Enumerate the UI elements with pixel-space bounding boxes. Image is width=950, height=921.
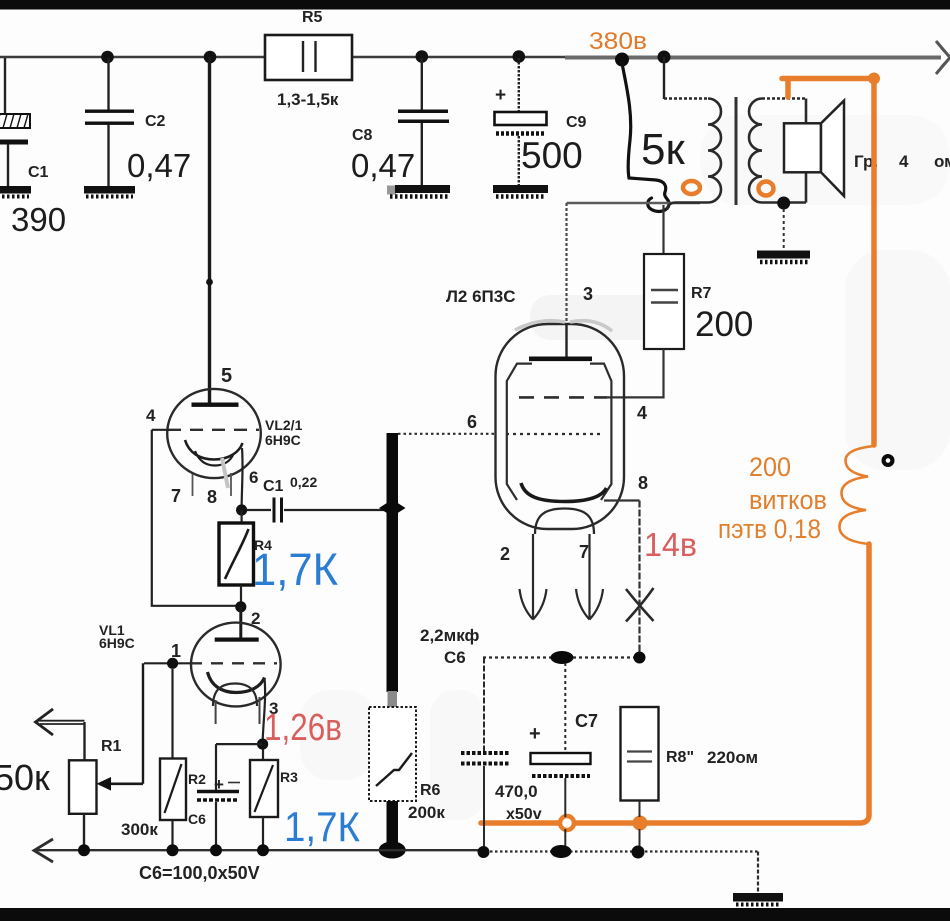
- orange winding coil: [839, 446, 874, 544]
- heater pin 7 arrow: [576, 534, 603, 620]
- node C1/R4 junction: [236, 504, 247, 515]
- svg-text:C1: C1: [263, 478, 284, 495]
- orange added-winding wire top run: [782, 79, 874, 446]
- svg-text:8: 8: [207, 487, 217, 507]
- svg-text:1: 1: [171, 641, 181, 661]
- ground below C2: [84, 186, 135, 197]
- node VL1 plate junction: [235, 601, 246, 612]
- wire ground bus bottom: [34, 839, 758, 893]
- wire pin3 vertical: [565, 203, 567, 324]
- wire pin6 dotted to driver node: [398, 433, 496, 435]
- wire B+ bus left: [0, 56, 600, 59]
- svg-text:1,7К: 1,7К: [252, 544, 338, 595]
- label Gr. 4 om: [854, 152, 950, 171]
- ground below C1: [0, 186, 31, 197]
- black ring marker right: [882, 454, 895, 467]
- svg-text:5к: 5к: [641, 125, 685, 174]
- svg-text:4: 4: [146, 406, 156, 425]
- svg-text:6Н9С: 6Н9С: [265, 432, 301, 448]
- tube VL1 envelope: [191, 623, 281, 707]
- svg-text:390: 390: [11, 201, 66, 238]
- wiper wire of R1 to grid: [97, 663, 144, 790]
- svg-text:VL2/1: VL2/1: [265, 417, 303, 433]
- wire hand-drawn from 380v node to transformer primary bottom: [622, 63, 669, 211]
- resistor R6: [369, 707, 445, 859]
- svg-text:7: 7: [171, 486, 181, 506]
- ground bottom right: [733, 893, 783, 905]
- resistor R7: [607, 205, 753, 397]
- tube L2 beam plates frame: [507, 364, 612, 500]
- svg-text:х50v: х50v: [506, 806, 542, 823]
- node blob on cathode line: [551, 651, 574, 664]
- svg-text:200: 200: [749, 452, 791, 482]
- tube VL2/1 pin stubs 7 8: [193, 473, 232, 496]
- top frame bar: [0, 0, 950, 10]
- capacitor C6 2,2mkf leads: [483, 658, 485, 853]
- wire secondary bottom to ground: [783, 209, 785, 251]
- svg-text:С6=100,0х50V: С6=100,0х50V: [139, 863, 260, 883]
- svg-text:1,26в: 1,26в: [264, 707, 342, 749]
- tube VL1 grid dashed: [190, 662, 277, 664]
- svg-text:380в: 380в: [589, 28, 647, 55]
- transformer core: [735, 97, 738, 205]
- capacitor C6 electrolytic lower: [188, 744, 262, 850]
- svg-text:+: +: [529, 723, 541, 745]
- speaker Gr 4 om: [784, 101, 844, 196]
- ground below C8: [387, 185, 450, 197]
- svg-text:6Н9С: 6Н9С: [99, 635, 135, 651]
- svg-text:1,7К: 1,7К: [284, 803, 360, 850]
- svg-text:4: 4: [899, 152, 909, 171]
- svg-text:0,47: 0,47: [127, 147, 191, 184]
- tube VL1 heater arc: [213, 684, 257, 707]
- svg-text:300к: 300к: [121, 820, 158, 839]
- wire VL2 plate feed from bus: [206, 57, 213, 403]
- svg-text:R1: R1: [101, 738, 122, 755]
- capacitor C7 electrolytic: [495, 663, 598, 852]
- svg-text:14в: 14в: [644, 526, 697, 563]
- heater pin 2 arrow: [520, 534, 547, 620]
- svg-text:витков: витков: [749, 485, 827, 515]
- tube VL2/1 cathode arcs: [185, 440, 243, 488]
- label VL2/1 6N9S: [265, 417, 303, 448]
- wire pin3 cathode down: [263, 678, 266, 744]
- wire grid pin1 stub: [144, 662, 191, 664]
- capacitor C2: [85, 58, 191, 187]
- tube VL1 cathode: [208, 672, 265, 693]
- tube L2 anode lead pin 3: [565, 324, 567, 357]
- svg-text:5: 5: [221, 365, 232, 387]
- node 380v dot: [615, 53, 629, 67]
- annotation 200 vitkov: [718, 452, 827, 544]
- svg-text:470,0: 470,0: [495, 782, 538, 801]
- tube L2 heater arc: [535, 509, 594, 535]
- transformer T1 primary winding 5k: [664, 99, 721, 211]
- node cathode junction: [257, 739, 268, 750]
- scan shading patches: [300, 115, 950, 820]
- tube L2 control grid dotted pin 6: [506, 433, 604, 435]
- ground below speaker: [757, 251, 810, 263]
- transformer secondary winding: [749, 99, 806, 203]
- tube L2 6P3S envelope: [496, 321, 625, 529]
- node secondary bottom junction: [777, 197, 790, 210]
- resistor R2: [160, 669, 206, 850]
- svg-text:8: 8: [638, 473, 648, 493]
- svg-text:С6: С6: [444, 648, 466, 667]
- orange corner dot: [868, 73, 880, 85]
- tube VL1 plate lead: [239, 607, 242, 639]
- orange wire down and bottom run: [481, 544, 869, 823]
- svg-text:R5: R5: [302, 9, 323, 26]
- tube L2 cathode: [521, 483, 607, 502]
- svg-text:200к: 200к: [408, 803, 445, 822]
- svg-text:Л2 6П3С: Л2 6П3С: [446, 287, 516, 306]
- orange dot mark on secondary: [759, 182, 774, 196]
- svg-text:7: 7: [579, 542, 589, 562]
- svg-text:С7: С7: [575, 711, 598, 731]
- svg-text:пэтв 0,18: пэтв 0,18: [718, 514, 821, 544]
- svg-text:0,47: 0,47: [351, 147, 415, 184]
- svg-text:+: +: [495, 85, 506, 106]
- svg-text:4: 4: [637, 403, 647, 423]
- tube VL2/1 envelope: [167, 389, 261, 478]
- node pin1 dot: [167, 658, 178, 669]
- svg-text:С6: С6: [188, 811, 206, 827]
- potentiometer R1: [69, 722, 122, 850]
- svg-text:2,2мкф: 2,2мкф: [420, 626, 479, 645]
- tube VL1 pin stubs: [216, 697, 260, 724]
- svg-text:6: 6: [249, 468, 258, 487]
- X break mark on pin8 wire: [626, 588, 654, 622]
- svg-text:R3: R3: [280, 769, 298, 785]
- svg-text:1,3-1,5к: 1,3-1,5к: [277, 90, 339, 109]
- svg-text:200: 200: [695, 305, 753, 344]
- output arrow right end of bus: [936, 41, 950, 74]
- svg-text:500: 500: [521, 135, 583, 176]
- tube VL1 anode plate: [215, 638, 259, 642]
- capacitor C9 electrolytic: [495, 58, 587, 186]
- capacitor C6 2,2mkf plates: [461, 753, 510, 764]
- svg-text:2: 2: [500, 544, 510, 564]
- node junction dots on bus: [101, 50, 670, 63]
- orange dot mark on primary: [683, 181, 700, 194]
- tube L2 anode plate: [529, 357, 592, 362]
- potentiometer R1 top arrow: [36, 709, 85, 735]
- orange dot at R8 bottom: [633, 816, 648, 831]
- svg-text:C8: C8: [352, 127, 373, 144]
- resistor R3: [250, 749, 298, 850]
- wire pin6 cathode down to C1 node: [241, 448, 244, 510]
- label VL1 6N9S: [99, 622, 135, 651]
- capacitor C8: [351, 58, 449, 186]
- tube VL2/1 grid dashed: [168, 429, 259, 431]
- tube VL2/1 anode plate: [192, 403, 239, 407]
- svg-text:R8": R8": [666, 749, 694, 766]
- wire plate node horizontal (pin3 to primary bottom): [567, 202, 701, 204]
- wire pin4 stub: [152, 429, 169, 431]
- resistor R8: [621, 707, 759, 852]
- svg-text:R2: R2: [188, 771, 206, 787]
- svg-text:50к: 50к: [0, 757, 50, 798]
- svg-text:R7: R7: [691, 285, 712, 302]
- transformer T1 primary lead: [663, 57, 665, 99]
- bottom frame bar: [0, 908, 950, 921]
- tube L2 screen grid dashed pin 4: [519, 396, 607, 399]
- orange open ring at C7 bottom: [560, 816, 574, 830]
- node dots on ground bus: [78, 844, 645, 858]
- wire B+ bus right gray: [565, 56, 941, 60]
- ground below C9: [493, 185, 548, 197]
- svg-text:3: 3: [583, 284, 593, 304]
- svg-text:R6: R6: [420, 782, 441, 799]
- resistor R5: [265, 9, 352, 109]
- wire pin 8 from cathode: [604, 501, 640, 658]
- svg-text:0,22: 0,22: [290, 474, 317, 490]
- capacitor C1: [0, 58, 66, 238]
- svg-text:C1: C1: [28, 164, 49, 181]
- wire thick driver output bar: [379, 433, 406, 707]
- resistor R4: [219, 510, 272, 585]
- wire cathode node dotted horizontal: [483, 656, 641, 658]
- wire feedback from VL2 grid down: [152, 430, 241, 606]
- svg-text:6: 6: [467, 412, 477, 432]
- wire R4 bottom to VL1 plate node: [240, 585, 242, 607]
- node R8 top dot: [634, 652, 646, 664]
- label 2,2mkf C6: [420, 626, 479, 667]
- svg-text:C2: C2: [145, 113, 166, 130]
- capacitor C1 0,22 coupling: [247, 474, 387, 523]
- svg-text:C9: C9: [566, 114, 587, 131]
- svg-text:ом: ом: [934, 152, 950, 171]
- svg-text:220ом: 220ом: [707, 748, 758, 767]
